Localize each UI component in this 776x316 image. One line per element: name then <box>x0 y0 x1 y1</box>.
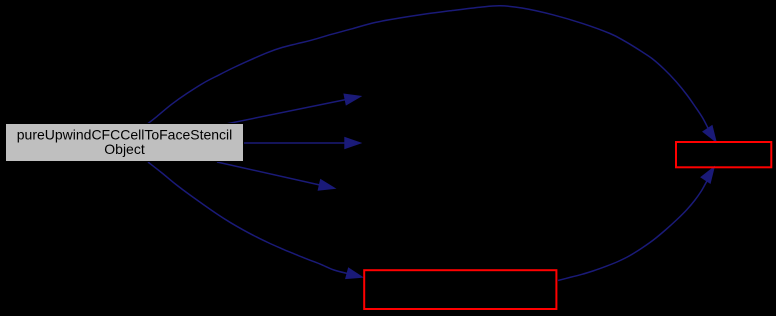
arrowhead middle 2 <box>345 138 361 149</box>
arrowhead middle 1 <box>344 94 361 105</box>
svg-text:pureUpwindCFCCellToFaceStencil: pureUpwindCFCCellToFaceStencil <box>17 126 233 142</box>
arrowhead bottom-left curve <box>346 268 363 279</box>
edge: arrow to middle node 3 <box>217 162 322 185</box>
node: bottom red box (truncated node) <box>364 270 556 309</box>
edge: arrow to middle node 2 <box>244 142 348 144</box>
edge: arrow to middle node 1 <box>226 99 348 124</box>
edge: bottom red box to right red box (bottom-right curve) <box>558 180 708 281</box>
arrowhead of top curve <box>703 126 716 142</box>
arrowhead middle 3 <box>318 180 335 191</box>
node: right red box (truncated node) <box>676 142 771 167</box>
node pureUpwindCFCCellToFaceStencilObject (grey box) <box>6 124 244 162</box>
edge: grey box to bottom red box (bottom-left curve) <box>148 162 349 274</box>
arrowhead bottom-right curve <box>701 167 714 183</box>
edge: pureUpwindCFCCellToFaceStencilObject to right node (top curve) <box>148 6 708 129</box>
svg-text:Object: Object <box>104 141 145 157</box>
